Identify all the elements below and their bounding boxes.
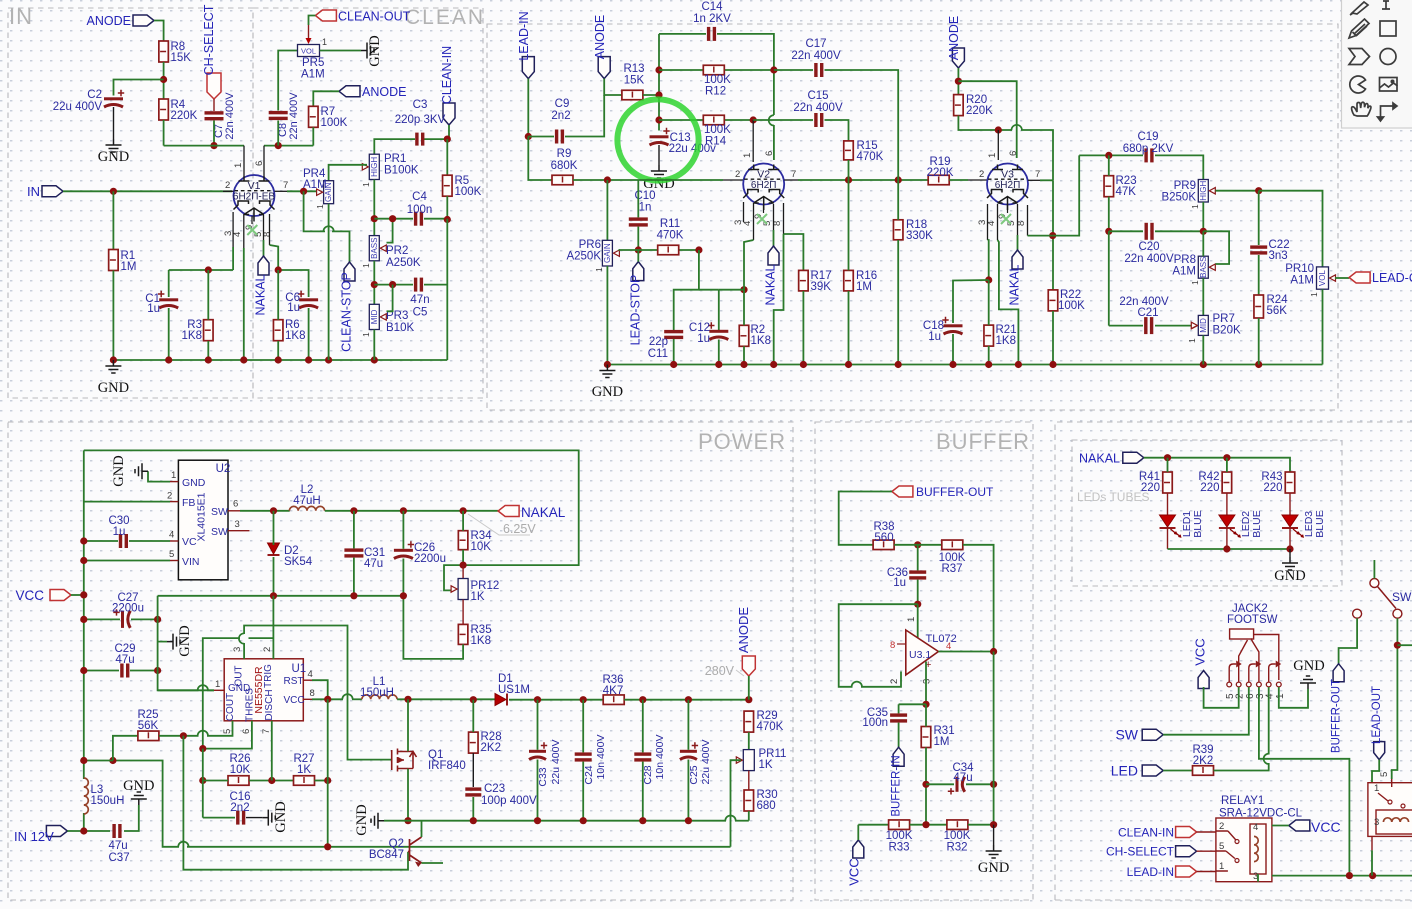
wire R14 line	[659, 119, 703, 121]
ground buffer	[993, 825, 995, 845]
port flag CH-SELECT	[207, 73, 221, 99]
wire R7 bottom	[312, 127, 314, 145]
svg-text:FB: FB	[182, 497, 195, 509]
wires C31	[353, 511, 355, 549]
wire C29 line	[84, 670, 119, 672]
svg-text:PR9: PR9	[1174, 180, 1196, 192]
resistor R13	[622, 90, 643, 100]
wire pin3 stub	[925, 662, 927, 705]
svg-text:CH-SELECT: CH-SELECT	[202, 4, 216, 75]
wire PR8 to PR7	[1202, 231, 1204, 256]
section border LEAD	[487, 24, 1338, 410]
section border RIGHT	[1055, 422, 1412, 900]
port flag ANODE (CLEAN)	[339, 86, 360, 97]
wires Q1 drain/source	[407, 699, 409, 751]
wire PR2 wiper up	[387, 219, 393, 243]
svg-text:220K: 220K	[966, 105, 993, 117]
svg-text:100K: 100K	[704, 74, 731, 86]
svg-text:GND: GND	[1293, 658, 1324, 674]
node C18 junction	[985, 276, 992, 283]
port flag LEAD-OUT (right)	[1374, 742, 1385, 760]
wires D2	[273, 511, 275, 545]
resistor R29	[744, 711, 754, 732]
svg-text:U1: U1	[292, 663, 307, 675]
svg-text:5: 5	[222, 729, 233, 734]
potentiometer PR1 HIGH	[369, 154, 379, 179]
svg-text:1: 1	[315, 204, 325, 209]
node pin8 junction	[1049, 232, 1056, 239]
resistor R32	[947, 820, 968, 830]
capacitor C6	[299, 298, 318, 301]
wires C33	[537, 700, 539, 750]
wire C18 to bus	[952, 334, 954, 365]
svg-text:1K8: 1K8	[285, 330, 305, 342]
capacitor C34	[956, 777, 959, 792]
svg-text:1: 1	[594, 267, 604, 272]
V1 pin4 lead to bus	[243, 214, 245, 248]
svg-text:LEAD-OUT: LEAD-OUT	[1372, 271, 1412, 285]
wire pin1 stub	[917, 604, 919, 638]
wire x202.8 down	[202, 749, 204, 818]
potentiometer PR4 GAIN	[324, 181, 334, 204]
resistor R12	[703, 65, 724, 75]
port flag CLEAN-OUT	[315, 10, 336, 21]
V2 pin3 lead	[743, 202, 745, 222]
capacitor C23	[465, 787, 481, 790]
svg-text:VCC: VCC	[1193, 638, 1208, 665]
svg-text:1K: 1K	[471, 591, 485, 603]
port flag IN	[42, 186, 63, 197]
svg-text:6: 6	[1008, 151, 1019, 156]
wire C10 top	[637, 180, 639, 217]
svg-text:2200u: 2200u	[112, 603, 144, 615]
svg-text:1u: 1u	[113, 526, 126, 538]
capacitor C10	[629, 217, 648, 220]
svg-text:3: 3	[232, 647, 243, 652]
svg-text:PR7: PR7	[1213, 313, 1235, 325]
wire NAKAL loop top	[84, 450, 579, 565]
wire R9 to V2 pin2	[573, 179, 723, 181]
node C30 junction	[80, 537, 87, 544]
svg-text:R11: R11	[660, 218, 680, 230]
svg-text:LEDs TUBES: LEDs TUBES	[1077, 490, 1149, 504]
V1 pin3 lead	[232, 212, 234, 247]
wire ANODE to R7	[313, 91, 339, 106]
capacitor C3	[415, 133, 418, 146]
wire PR11 to R30	[748, 771, 750, 790]
svg-text:2K2: 2K2	[481, 742, 501, 754]
port flag LED	[1142, 765, 1163, 776]
svg-text:1: 1	[987, 153, 998, 158]
ground left of Q1	[371, 813, 384, 829]
svg-text:C2: C2	[87, 89, 102, 101]
wire R33 to R32	[910, 824, 947, 826]
svg-text:LEAD-IN: LEAD-IN	[1127, 865, 1174, 879]
svg-text:47u: 47u	[364, 558, 383, 570]
node bus mid junction	[922, 821, 929, 828]
wire to C1	[168, 270, 170, 297]
svg-text:47u: 47u	[953, 772, 972, 784]
svg-text:1K8: 1K8	[182, 330, 202, 342]
wire CH-SELECT to C7	[213, 99, 215, 111]
toolbar icon circle	[1380, 49, 1396, 65]
section border LEDs TUBES	[1072, 440, 1342, 586]
svg-text:XL4015E1: XL4015E1	[196, 492, 208, 541]
node dots on x659	[655, 66, 662, 73]
svg-text:R37: R37	[941, 563, 962, 575]
svg-text:BUFFER: BUFFER	[936, 429, 1030, 454]
svg-text:680: 680	[757, 800, 776, 812]
svg-text:IN 12V: IN 12V	[14, 829, 54, 844]
svg-text:8: 8	[890, 640, 895, 651]
wire C2 to GND	[113, 107, 115, 139]
svg-text:470K: 470K	[757, 721, 784, 733]
svg-text:2K2: 2K2	[1193, 755, 1213, 767]
wire LEAD ground bus	[607, 364, 1322, 366]
node PR1/PR2 junction	[371, 215, 378, 222]
wire PR4 to PR1 wiper	[329, 165, 367, 181]
ground right of PR5	[361, 43, 374, 59]
wire SW1 top stub	[1373, 560, 1375, 579]
svg-text:BLUE: BLUE	[1314, 510, 1326, 537]
wire PR9 to C20 node	[1202, 202, 1204, 231]
svg-text:6Н2П: 6Н2П	[995, 180, 1021, 191]
svg-text:22u 400V: 22u 400V	[550, 740, 562, 785]
port flag CLEAN-IN (relay)	[1176, 827, 1197, 838]
jack JACK2 symbol	[1229, 629, 1279, 682]
svg-text:4: 4	[169, 530, 174, 541]
resistor R22	[1048, 290, 1058, 311]
relay RELAY2	[1368, 779, 1412, 850]
svg-text:7: 7	[283, 180, 288, 191]
svg-text:100n: 100n	[862, 717, 888, 729]
wire R5/C4/C5 vertical	[446, 219, 448, 360]
node VIN junction	[80, 557, 87, 564]
svg-text:5: 5	[169, 549, 174, 560]
node V1 pin7 junction	[300, 188, 307, 195]
svg-text:680p 2KV: 680p 2KV	[1123, 143, 1174, 155]
wire C6 to bus	[308, 308, 310, 360]
node vertical x202.8 dots	[199, 745, 206, 752]
svg-text:GND: GND	[273, 801, 289, 832]
wires R21	[988, 280, 990, 325]
wire PR1 to C4 line	[373, 180, 375, 236]
mid bus junction dots	[270, 592, 277, 599]
potentiometer PR2 BASS	[369, 236, 379, 261]
resistor R31	[921, 727, 931, 748]
port flag IN 12V	[46, 826, 67, 837]
port flag NAKAL (LEDs)	[1123, 452, 1144, 463]
svg-text:220K: 220K	[171, 110, 198, 122]
wires Q2	[408, 850, 410, 852]
LED LED3 BLUE	[1282, 515, 1298, 527]
svg-text:100K: 100K	[704, 124, 731, 136]
svg-text:CLEAN: CLEAN	[405, 6, 485, 29]
svg-text:GND: GND	[592, 384, 623, 400]
node R11 right junction	[695, 246, 702, 253]
svg-text:GND: GND	[354, 804, 370, 835]
U2 pin stubs	[170, 481, 178, 483]
wire cathode1 net	[169, 269, 233, 271]
node C19/R23 junction	[1105, 152, 1112, 159]
svg-text:PR8: PR8	[1174, 254, 1196, 266]
svg-text:6.25V: 6.25V	[503, 522, 536, 536]
capacitor C21	[1144, 317, 1147, 334]
inductor L3	[84, 778, 89, 814]
wire ANODE stem	[957, 68, 959, 95]
svg-text:LEAD-IN: LEAD-IN	[517, 11, 531, 60]
wire R32 to GND	[968, 824, 994, 826]
wire output	[938, 651, 993, 653]
svg-text:2: 2	[1219, 821, 1224, 832]
svg-text:1: 1	[215, 679, 220, 690]
svg-text:47K: 47K	[1116, 186, 1137, 198]
node R38/C36 junction	[914, 541, 921, 548]
svg-text:4: 4	[1253, 822, 1258, 833]
wire V3 pin7/pin8 node	[1052, 180, 1054, 290]
tube V2	[743, 164, 784, 205]
wire PR10 top loop	[1259, 191, 1323, 267]
svg-text:C37: C37	[109, 852, 130, 864]
svg-text:150uH: 150uH	[91, 795, 125, 807]
port flag VCC (POWER)	[50, 590, 71, 601]
wire ground bus IN/CLEAN	[113, 359, 447, 361]
resistor R8	[159, 41, 169, 62]
node C3/CLEAN-IN junction	[444, 136, 451, 143]
capacitor C8	[269, 111, 288, 114]
PR6 bottom stub	[606, 266, 608, 365]
wire mid ground rail x157.6	[158, 596, 214, 691]
wire ANODE to R13	[604, 79, 622, 95]
svg-text:1: 1	[1190, 280, 1200, 285]
node LEAD-IN junction	[525, 133, 532, 140]
svg-text:C4: C4	[412, 191, 427, 203]
svg-text:1: 1	[1190, 204, 1200, 209]
wire C1 to bus	[168, 308, 170, 360]
wire R25 junction down to Q2 base line	[183, 736, 408, 870]
bus dots right	[1346, 872, 1353, 879]
wire relay2 to bus	[1371, 850, 1373, 875]
svg-text:IRF840: IRF840	[428, 760, 466, 772]
svg-text:10n 400V: 10n 400V	[654, 735, 666, 780]
svg-text:6Н2П-ЕВ: 6Н2П-ЕВ	[233, 191, 276, 202]
potentiometer PR11	[743, 750, 754, 771]
wire C19 left loop	[1053, 155, 1080, 235]
potentiometer PR8 BASS	[1198, 256, 1208, 278]
svg-text:100n: 100n	[407, 204, 433, 216]
svg-text:SW: SW	[1115, 727, 1138, 743]
capacitor C1	[159, 298, 178, 301]
V1 pin7 lead to PR4	[275, 190, 288, 192]
svg-text:2n2: 2n2	[551, 110, 570, 122]
svg-text:1M: 1M	[934, 736, 950, 748]
svg-text:220K: 220K	[927, 167, 954, 179]
toolbar icon arrow shape	[1349, 49, 1370, 65]
wire C14 loop	[659, 33, 706, 35]
wire power mid bus	[158, 595, 404, 597]
toolbar icon pencil	[1349, 19, 1369, 38]
node C5 wiper junction	[389, 281, 396, 288]
svg-text:VCC: VCC	[847, 858, 862, 885]
port flag BUFFER-OUT	[892, 486, 913, 497]
wire R14 to C15	[753, 119, 813, 121]
toolbar icon hand	[1352, 102, 1371, 116]
svg-text:NAKAL: NAKAL	[521, 505, 566, 520]
svg-text:3: 3	[922, 679, 933, 684]
svg-text:1K: 1K	[759, 759, 773, 771]
node V3 grid junction	[995, 126, 1002, 133]
svg-text:2: 2	[889, 679, 900, 684]
wire OUT to gate loop	[243, 643, 245, 659]
V1 pin8 lead jog	[269, 214, 271, 245]
node R31/C34 junction	[922, 781, 929, 788]
resistor R27	[294, 776, 315, 786]
wire output to bus	[993, 652, 995, 825]
V3 pin8 lead	[1027, 205, 1029, 236]
node R6 junction	[275, 266, 282, 273]
U3.1 pin8 stub	[897, 643, 906, 645]
svg-text:US1M: US1M	[498, 684, 530, 696]
svg-text:C9: C9	[555, 98, 570, 110]
V3 pin3 lead to C18/R21 node	[987, 204, 989, 240]
svg-text:C15: C15	[807, 90, 828, 102]
svg-text:R13: R13	[623, 63, 644, 75]
toolbar icon rectangle	[1380, 21, 1396, 36]
wire C16 line	[203, 817, 235, 819]
wire LEAD-IN to R9	[528, 137, 552, 181]
capacitor C31	[344, 548, 363, 551]
svg-text:1: 1	[906, 617, 917, 622]
wires R3	[207, 270, 209, 320]
svg-text:BLUE: BLUE	[1192, 510, 1204, 537]
svg-text:RST: RST	[284, 676, 304, 687]
svg-text:1u: 1u	[893, 577, 906, 589]
wire grid V2 pin1	[752, 120, 754, 162]
svg-text:56K: 56K	[138, 720, 159, 732]
V3 pin7 lead	[1028, 179, 1040, 181]
wire PR3 to bus	[373, 330, 375, 361]
wire DISCH stub	[271, 721, 273, 781]
svg-text:HIGH: HIGH	[370, 157, 379, 177]
svg-text:1K8: 1K8	[471, 635, 491, 647]
svg-text:1: 1	[1187, 338, 1197, 343]
wire R22 to bus	[1052, 311, 1054, 365]
resistor R43	[1285, 472, 1295, 493]
svg-text:6: 6	[241, 729, 252, 734]
capacitor C29	[120, 664, 123, 678]
svg-text:4K7: 4K7	[603, 685, 623, 697]
wire jack pin3 to bus	[1259, 687, 1350, 876]
svg-text:22p: 22p	[649, 336, 668, 348]
wire BUFFER-OUT to R38	[839, 492, 892, 545]
svg-text:V2: V2	[757, 169, 770, 181]
resistor R4	[159, 99, 169, 120]
section border IN	[8, 8, 253, 398]
svg-text:220p 3KV: 220p 3KV	[395, 114, 446, 126]
wire C21 line	[1109, 325, 1143, 327]
wire jack pin1 to GND	[1279, 687, 1308, 708]
V1 pin9 lead	[251, 216, 253, 224]
svg-text:CLEAN-OUT: CLEAN-OUT	[338, 10, 411, 24]
capacitor C18	[944, 324, 963, 327]
wire SW1 left to BUFFER-OUT	[1339, 618, 1358, 664]
svg-text:NE555DR: NE555DR	[253, 666, 265, 714]
svg-text:BC847: BC847	[369, 849, 404, 861]
resistor R20	[954, 95, 964, 116]
toolbar panel	[1342, 0, 1412, 128]
toolbar icon image	[1380, 78, 1398, 92]
wire C35 to pin3 node	[899, 703, 926, 705]
wire VCC to rail	[71, 594, 84, 596]
resistor R1	[109, 250, 119, 271]
wire R19 to V3 pin2	[949, 179, 968, 181]
svg-text:6: 6	[254, 161, 265, 166]
svg-text:ANODE: ANODE	[593, 15, 607, 59]
svg-text:LEAD-OUT: LEAD-OUT	[1371, 686, 1383, 744]
wire R38 to R37	[894, 544, 942, 546]
ground right of jack	[1300, 676, 1316, 689]
port flag SW	[1142, 729, 1163, 740]
wire C18 loop	[953, 280, 989, 323]
node PR2/PR3 junction	[371, 281, 378, 288]
svg-text:IN: IN	[9, 4, 33, 29]
node R3 junction	[205, 266, 212, 273]
svg-text:39K: 39K	[811, 281, 832, 293]
node pin3 junction	[922, 701, 929, 708]
svg-text:SK54: SK54	[284, 556, 313, 568]
wire SW1 right down	[1392, 618, 1398, 779]
callout 280V	[736, 670, 744, 676]
svg-text:GND: GND	[177, 625, 193, 656]
node C34 right junction	[990, 781, 997, 788]
resistor R15	[844, 141, 854, 160]
port flag LEAD-OUT (PR10)	[1349, 272, 1370, 283]
node C20 left junction	[1105, 228, 1112, 235]
wire R17 bottom	[802, 291, 804, 365]
toolbar icon pie/arc	[1350, 76, 1366, 93]
wire C8 bottom	[277, 121, 279, 146]
wire C3 line	[374, 139, 415, 154]
port flag CLEAN-IN	[443, 103, 455, 125]
ground at U2 pin1	[148, 471, 170, 481]
svg-text:560: 560	[874, 532, 893, 544]
port flag ANODE (V2)	[598, 57, 610, 79]
potentiometer PR3 MID	[369, 304, 379, 329]
svg-text:1u: 1u	[147, 303, 160, 315]
svg-text:PR5: PR5	[302, 57, 324, 69]
svg-text:47n: 47n	[410, 294, 429, 306]
wire LEAD-OUT to relay2	[1372, 760, 1379, 783]
svg-text:47uH: 47uH	[293, 495, 321, 507]
inductor L1	[362, 695, 397, 699]
callout 6.25V	[468, 514, 530, 535]
wire R12 line	[659, 69, 703, 71]
node R15 junction	[845, 176, 852, 183]
vertical node line x659	[658, 34, 660, 131]
svg-text:GND: GND	[367, 35, 383, 66]
wire R15 bottom	[848, 160, 850, 180]
svg-text:VC: VC	[182, 536, 197, 548]
svg-text:PR6: PR6	[579, 239, 601, 251]
wire C35 to BUFFER-IN	[898, 723, 900, 748]
toolbar icon pin (partial)	[1382, 1, 1390, 9]
svg-text:GND: GND	[98, 380, 129, 396]
wire THRES loop	[203, 638, 252, 749]
wire C19 line	[1079, 154, 1143, 156]
svg-text:1: 1	[361, 263, 371, 268]
capacitor C12	[709, 330, 728, 333]
wire FB big loop	[84, 501, 170, 503]
